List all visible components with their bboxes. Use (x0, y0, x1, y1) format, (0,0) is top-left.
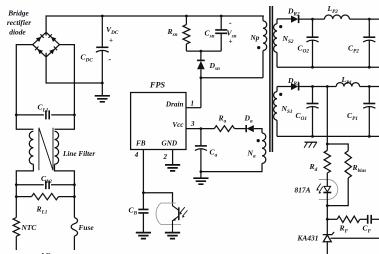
ground (GND pin) (165, 165, 180, 171)
capacitor CB (142, 193, 144, 210)
wire snubber bottom (186, 50, 221, 52)
node Ca tap (200, 127, 203, 130)
wire top rail (bridge+ to Np) (46, 16, 264, 36)
wire bridge right AC (55, 45, 75, 130)
inductor LP2 (325, 15, 350, 19)
wire VDC branch upper (101, 16, 103, 47)
svg-text:FB: FB (136, 140, 146, 148)
node Rsn junction (185, 15, 188, 18)
diode DR1 (291, 83, 298, 90)
svg-text:KA431: KA431 (297, 234, 319, 243)
node out1 sense (326, 85, 329, 88)
capacitor CO1 (312, 87, 314, 104)
node drain junction (200, 76, 203, 79)
resistor RL1 (32, 193, 59, 199)
node rail2 a (311, 66, 314, 69)
wire ground stem (101, 83, 103, 96)
wire Ca gnd stem (200, 172, 202, 179)
svg-text:NTC: NTC (21, 223, 37, 232)
wire NS1 to DR1 (277, 86, 291, 88)
node Np phase dot (257, 46, 260, 49)
node Dsn top (200, 50, 203, 53)
svg-text:Drain: Drain (165, 101, 184, 109)
wire FB pin stub (142, 150, 144, 193)
svg-text:rectifier: rectifier (7, 18, 31, 27)
node Na phase dot (257, 139, 260, 142)
ground (opto emitter) (165, 233, 180, 239)
diode LED (817A optocoupler) (319, 180, 328, 200)
inductor line-filter left winding (29, 131, 33, 164)
capacitor CF (368, 215, 372, 224)
node RL1 left (15, 195, 18, 198)
wire drain to Np (201, 78, 263, 108)
node CL2 right (73, 183, 76, 186)
resistor Rbias (345, 151, 351, 178)
transistor Q opto-phototransistor (156, 203, 181, 224)
node rail1 b (368, 135, 371, 138)
inductor line-filter right winding (55, 131, 59, 164)
zener KA431 shunt regulator (323, 232, 334, 235)
node FB junction (142, 191, 145, 194)
svg-text:Bridge: Bridge (7, 9, 29, 18)
node out2 b (368, 18, 371, 21)
wire Ra to Da (235, 128, 247, 130)
wire NS2 to DR2 (277, 18, 291, 20)
wire filter bottom right (55, 164, 75, 196)
wire CL1 link (16, 114, 74, 116)
node rail1 a (311, 135, 314, 138)
node Ca bottom (200, 170, 203, 173)
diode DR2 (291, 16, 298, 23)
capacitor CO2 (312, 19, 314, 37)
node divider top (326, 143, 329, 146)
svg-text:817A: 817A (295, 186, 311, 195)
ground (Ca) (193, 178, 208, 184)
resistor Rsn (185, 16, 187, 25)
wire led to ka431 (326, 206, 328, 235)
inductor LP1 (336, 83, 359, 87)
svg-text:Line Filter: Line Filter (62, 150, 95, 158)
op-amp U1 FPS box (131, 93, 186, 150)
node led cathode (326, 204, 329, 207)
node RL1 right (73, 195, 76, 198)
capacitor CP2 (368, 19, 370, 37)
diode Dsn (200, 51, 202, 60)
capacitor CDC (96, 46, 108, 48)
svg-text:2: 2 (163, 153, 168, 161)
capacitor CL2 (46, 181, 49, 190)
inductor NS2 winding (276, 19, 278, 24)
resistor Ra (214, 126, 234, 132)
diode Da (245, 125, 247, 132)
capacitor CP1 (368, 87, 370, 104)
wire to Rbias (327, 144, 348, 151)
capacitor CL1 (46, 110, 49, 119)
node CL2 left (15, 183, 18, 186)
node left filter tap (15, 114, 18, 117)
ground (CB) (136, 233, 151, 239)
node VDC junction (101, 15, 104, 18)
node NS1 phase dot (279, 93, 282, 96)
svg-text:+: + (109, 37, 113, 45)
resistor Rd (326, 144, 328, 150)
svg-text:Np: Np (250, 34, 260, 42)
wire out1 return rail (277, 135, 379, 137)
wire bridge left AC (16, 45, 33, 130)
wire GND pin stub (172, 150, 174, 165)
wire sense drop (326, 87, 328, 145)
node rf tap (326, 218, 329, 221)
wire out2 return rail (277, 66, 379, 68)
svg-text:Vcc: Vcc (172, 121, 184, 129)
svg-text:-: - (109, 55, 112, 64)
svg-text:3: 3 (190, 120, 195, 128)
wire CL2 link (16, 184, 74, 186)
node out1 a (311, 85, 314, 88)
capacitor Csn (220, 16, 222, 30)
inductor NS1 winding (276, 87, 278, 92)
wire Drain pin stub (186, 107, 201, 109)
svg-text:GND: GND (162, 140, 178, 148)
resistor RF (327, 218, 337, 220)
wire Vcc pin stub (186, 128, 214, 130)
wire filter bottom left (16, 164, 33, 196)
node right filter tap (73, 114, 76, 117)
resistor NTC (thermistor) (15, 197, 17, 218)
wire VDC branch lower (101, 51, 103, 84)
node out2 a (311, 18, 314, 21)
svg-text:Fuse: Fuse (79, 223, 95, 232)
svg-text:1: 1 (191, 100, 195, 108)
ground (DC bus) (95, 96, 110, 102)
svg-text:-: - (229, 19, 232, 28)
bridge rectifier BR1 (33, 32, 60, 57)
svg-text:+: + (229, 38, 233, 46)
wire bridge- return (46, 53, 102, 83)
svg-text:4: 4 (134, 151, 139, 159)
transformer core (270, 6, 273, 152)
svg-text:FPS: FPS (149, 81, 165, 90)
node CDC bottom (101, 82, 104, 85)
capacitor Ca (200, 129, 202, 146)
inductor Na aux winding (262, 133, 266, 163)
ground (secondary chassis) (305, 141, 318, 143)
node NS2 phase dot (279, 25, 282, 28)
node out1 b (368, 85, 371, 88)
inductor Np primary winding (262, 16, 264, 21)
line filter core (39, 128, 53, 171)
node Csn junction (220, 15, 223, 18)
wire FB to opto (143, 193, 172, 204)
svg-text:diode: diode (9, 28, 26, 37)
fuse F1 (73, 197, 75, 218)
node rail2 b (368, 66, 371, 69)
